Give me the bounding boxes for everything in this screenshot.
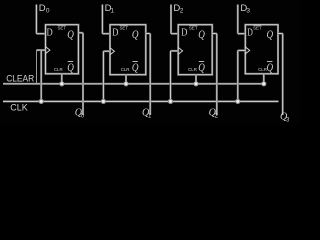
svg-text:Q: Q (132, 60, 139, 74)
svg-text:Q: Q (67, 27, 74, 41)
wire D2 input horizontal into D pin (171, 33, 178, 35)
wire D0 input vertical (35, 5, 37, 34)
wire U2 Q output horizontal (146, 32, 150, 34)
wire D0 input horizontal into D pin (36, 33, 45, 35)
node junction U3 CLR on CLEAR bus (193, 81, 198, 86)
wire D2 input vertical (170, 5, 172, 34)
node D1 input label (105, 3, 115, 15)
wire U1 clock input stub (36, 49, 45, 51)
svg-text:1: 1 (110, 8, 114, 15)
svg-text:SET: SET (120, 26, 129, 31)
svg-text:SET: SET (253, 26, 262, 31)
wire U4 Q output horizontal (278, 32, 283, 34)
wire U1 clock vertical to CLK bus (40, 50, 42, 101)
wire U1 Q output vertical down to Q0 (82, 33, 84, 115)
flip-flop U1 Qbar output pin label (67, 60, 74, 74)
svg-text:Q: Q (198, 60, 205, 74)
flip-flop U3 SET pin label (189, 26, 198, 31)
svg-text:CLK: CLK (10, 103, 28, 114)
svg-text:Q: Q (267, 60, 274, 74)
svg-text:Q: Q (198, 27, 205, 41)
wire U3 clock vertical to CLK bus (169, 51, 171, 102)
wire U4 clock vertical to CLK bus (237, 50, 239, 101)
flip-flop U4 Qbar output pin label (267, 60, 274, 74)
wire U3 Q output horizontal (212, 32, 217, 34)
svg-text:D: D (39, 3, 46, 14)
node D3 input label (240, 3, 250, 15)
flip-flop U2 SET pin label (120, 26, 129, 31)
node junction U4 CLR on CLEAR bus (261, 81, 266, 86)
wire U1 Q output horizontal (78, 32, 83, 34)
wire U2 Q output vertical down to Q1 (149, 34, 151, 116)
flip-flop U4 SET pin label (253, 26, 262, 31)
wire U4 Q output vertical down to Q3 (282, 34, 284, 116)
node junction U2 CLR on CLEAR bus (123, 81, 128, 86)
wire U4 CLR pin down to CLEAR bus (263, 74, 265, 84)
wire CLEAR bus line (3, 83, 265, 85)
node Q0 output label (75, 108, 85, 120)
wire D3 input horizontal into D pin (238, 33, 246, 35)
wire U1 CLR pin down to CLEAR bus (61, 74, 63, 84)
svg-text:3: 3 (286, 118, 290, 124)
flip-flop U1 SET pin label (58, 26, 67, 31)
flip-flop U4 box (245, 25, 278, 74)
svg-text:SET: SET (58, 26, 67, 31)
svg-text:D: D (112, 28, 119, 39)
svg-text:CLR: CLR (258, 67, 267, 72)
wire U3 clock input stub (171, 50, 179, 52)
svg-text:2: 2 (180, 8, 184, 15)
flip-flop U1 box (46, 25, 79, 74)
wire D1 input vertical (101, 5, 103, 34)
flip-flop U3 clock edge triangle (178, 47, 182, 54)
node junction U2 clock on CLK bus (101, 99, 106, 104)
node Q2 output label (209, 108, 219, 120)
svg-text:0: 0 (46, 8, 50, 15)
wire D3 input vertical (237, 5, 239, 34)
wire U3 CLR pin down to CLEAR bus (195, 75, 197, 84)
svg-text:1: 1 (148, 114, 152, 120)
svg-text:Q: Q (67, 60, 74, 74)
wire U2 clock input stub (103, 50, 110, 52)
node junction U4 clock on CLK bus (235, 99, 240, 104)
wire stage-1 vertical from stub corner down across CLEAR (36, 50, 38, 84)
node D0 input label (39, 3, 50, 15)
wire D1 input horizontal into D pin (102, 33, 110, 35)
wire U3 Q output vertical down to Q2 (216, 34, 218, 116)
flip-flop U2 Qbar output pin label (132, 60, 139, 74)
svg-text:D: D (181, 28, 188, 39)
node junction U1 CLR on CLEAR bus (59, 81, 64, 86)
flip-flop U2 box (110, 25, 146, 75)
svg-text:SET: SET (189, 26, 198, 31)
node Q3 output label (280, 112, 290, 124)
svg-text:CLR: CLR (121, 67, 130, 72)
flip-flop U3 Qbar output pin label (198, 60, 205, 74)
flip-flop U1 clock edge triangle (46, 47, 50, 54)
node junction U3 clock on CLK bus (168, 99, 173, 104)
svg-text:Q: Q (132, 27, 139, 41)
svg-text:CLR: CLR (54, 67, 63, 72)
svg-text:3: 3 (246, 8, 250, 15)
flip-flop U3 box (178, 25, 212, 75)
svg-text:0: 0 (81, 114, 85, 120)
node Q1 output label (142, 108, 152, 120)
svg-text:D: D (47, 28, 54, 39)
svg-text:2: 2 (215, 114, 219, 120)
flip-flop U2 clock edge triangle (110, 48, 114, 55)
node junction U1 clock on CLK bus (39, 99, 44, 104)
svg-text:CLR: CLR (188, 67, 197, 72)
wire CLK bus line (3, 100, 279, 102)
wire U4 clock input stub (238, 49, 246, 51)
wire U2 CLR pin down to CLEAR bus (125, 75, 127, 84)
node D2 input label (173, 3, 183, 15)
svg-text:Q: Q (267, 27, 274, 41)
flip-flop U4 clock edge triangle (245, 47, 249, 54)
wire U2 clock vertical to CLK bus (102, 51, 104, 101)
svg-text:CLEAR: CLEAR (6, 73, 34, 83)
